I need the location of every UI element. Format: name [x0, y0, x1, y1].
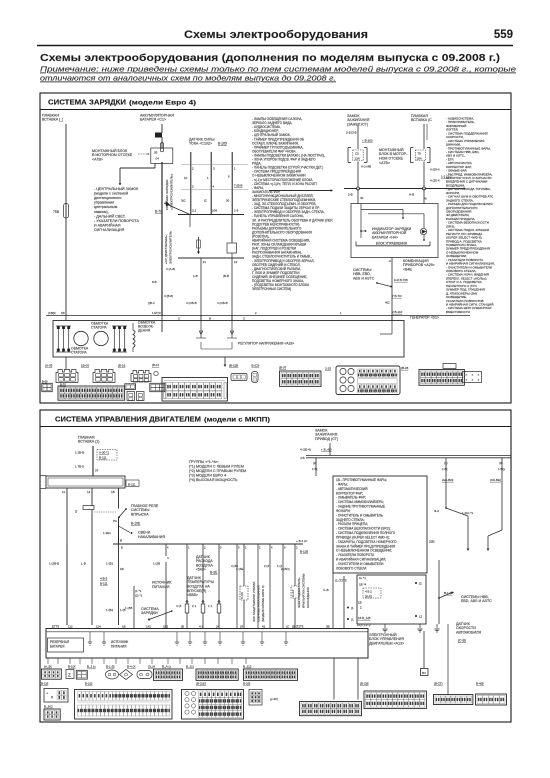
svg-text:(2) *1: (2) *1: [135, 594, 143, 598]
svg-text:1В: 1В: [111, 490, 115, 494]
wire fusible link vertical: [65, 124, 67, 316]
svg-text:ЕТТ5: ЕТТ5: [52, 624, 59, 628]
svg-text:ЭЛЕКТРОННЫХ СИСТЕМ): ЭЛЕКТРОННЫХ СИСТЕМ): [252, 287, 291, 291]
svg-text:1В: 1В: [120, 567, 124, 571]
svg-text:04: 04: [156, 156, 160, 160]
svg-text:В-105: В-105: [218, 141, 227, 145]
svg-text:×: ×: [466, 373, 468, 377]
svg-text:2-В: 2-В: [348, 193, 353, 197]
generator ground: [224, 357, 226, 364]
svg-text:замком),: замком),: [94, 210, 109, 214]
header rule: [37, 45, 513, 47]
svg-text:12: 12: [234, 260, 238, 264]
svg-text:В-111: В-111: [100, 582, 108, 586]
svg-text:ВСТАВКА (С: ВСТАВКА (С: [411, 118, 432, 122]
svg-text:- ГАБАРИТЫ, ПОДСВЕТКА НОМЕРНОГ: - ГАБАРИТЫ, ПОДСВЕТКА НОМЕРНОГО: [336, 540, 397, 544]
svg-text:(В-1)5: (В-1)5: [40, 682, 49, 686]
svg-text:«ЭЛЕКТРОУСИЛИТЕЛЬ»: «ЭЛЕКТРОУСИЛИТЕЛЬ»: [170, 173, 174, 210]
svg-text:8-В: 8-В: [152, 280, 157, 284]
component C-C9 dashed: [243, 544, 245, 586]
svg-text:(2: (2: [419, 582, 422, 586]
svg-text:16 В_1(В: 16 В_1(В: [358, 616, 371, 620]
svg-text:(,-В: (,-В: [81, 562, 86, 566]
svg-text:(СВ(Я: (СВ(Я: [48, 311, 56, 315]
svg-text:(В-2Т): (В-2Т): [434, 682, 443, 686]
current sensor wires: [190, 152, 192, 215]
svg-text:(1 (Т2Т5: (1 (Т2Т5: [335, 579, 347, 583]
svg-text:(З_М: (З_М: [148, 665, 155, 669]
wire battery to fuse box: [161, 137, 163, 149]
svg-text:ДВИГАТЕЛЕМ <А13>: ДВИГАТЕЛЕМ <А13>: [369, 642, 404, 646]
svg-text:(у-30(: (у-30(: [270, 697, 278, 701]
svg-text:×: ×: [472, 373, 474, 377]
ECU main box: [46, 629, 368, 659]
svg-text:1 1: 1 1: [208, 604, 213, 608]
fuse element on battery wire: [161, 143, 164, 152]
svg-text:(В-2)15: (В-2)15: [196, 682, 206, 686]
ECU internal components: [89, 632, 91, 642]
ground icon diamond: [120, 670, 133, 680]
links A-30 B-111: [97, 450, 117, 461]
small grid right of B70: [150, 383, 165, 391]
svg-text:В-2Е: В-2Е: [210, 571, 218, 575]
svg-text:БАТАРЕЯ: БАТАРЕЯ: [50, 644, 65, 648]
ground grid mid: [196, 669, 238, 680]
wire left of ECU pin box: [343, 576, 345, 628]
svg-text:7 (В-В: 7 (В-В: [234, 184, 243, 188]
svg-text:4 В: 4 В: [300, 456, 305, 460]
svg-text:1В *4: 1В *4: [359, 582, 367, 586]
svg-text:(В-11: (В-11: [152, 363, 159, 367]
stator winding coils: [74, 331, 88, 345]
small grid pair mid: [125, 384, 136, 390]
connector bus B-70 upper line: [178, 214, 244, 216]
svg-text:В-111: В-111: [99, 456, 107, 460]
svg-text:- ОМЫВАТЕЛЬ ФАР;: - ОМЫВАТЕЛЬ ФАР;: [336, 496, 366, 500]
relay coil component K1: [227, 243, 237, 253]
svg-text:1 (В1: 1 (В1: [106, 608, 114, 612]
svg-text:1 2Е1: 1 2Е1: [103, 531, 111, 535]
svg-text:АВТОМОБИЛЯ: АВТОМОБИЛЯ: [456, 631, 481, 635]
svg-text:В-10Е: В-10Е: [131, 522, 141, 526]
svg-text:В-1(Х: В-1(Х: [68, 665, 76, 669]
svg-text:ВСТАВКА [_]: ВСТАВКА [_]: [42, 118, 63, 122]
svg-text:4 (З: 4 (З: [176, 604, 182, 608]
svg-text:1В - ПРОТИВОТУМАННЫЕ ФАРЫ;: 1В - ПРОТИВОТУМАННЫЕ ФАРЫ;: [336, 478, 387, 482]
svg-text:11: 11: [62, 490, 65, 494]
ladder top bus: [113, 543, 303, 545]
svg-text:×: ×: [472, 378, 474, 382]
svg-text:ЗАРЯДКИ: ЗАРЯДКИ: [141, 611, 158, 615]
svg-text:АВS И АSТС: АВS И АSТС: [353, 277, 375, 281]
svg-text:1 ЕТ(Я: 1 ЕТ(Я: [152, 311, 161, 315]
wire to vehicle speed sensor area: [438, 560, 440, 624]
bus box ref B-111: [126, 480, 139, 487]
right pin box of ECU: [357, 575, 426, 624]
battery C1 symbol: [155, 133, 162, 138]
ladder middle wires: [133, 586, 135, 629]
svg-text:(В (Т2Т5: (В (Т2Т5: [292, 624, 304, 628]
svg-text:- ОЧИСТИТЕЛЬ И ОМЫВАТЕЛЬ: - ОЧИСТИТЕЛЬ И ОМЫВАТЕЛЬ: [336, 513, 383, 517]
svg-text:В4: В4: [422, 671, 426, 675]
svg-text:И АВАРИЙНАЯ: И АВАРИЙНАЯ: [94, 223, 121, 227]
svg-text:ЭЛЕКТРОДВИГАТЕЛЬ-: ЭЛЕКТРОДВИГАТЕЛЬ-: [297, 577, 301, 608]
fuse box 05 04 in relay box: [151, 148, 173, 164]
generator top pin rail: [46, 315, 470, 317]
svg-text:(А_В(: (А_В(: [44, 665, 52, 669]
svg-text:14: 14: [87, 490, 91, 494]
svg-text:4(С: 4(С: [385, 301, 391, 305]
ground icon oval wide: [137, 671, 152, 679]
bottom big grid A: [75, 690, 173, 720]
svg-text:- ЦЕНТРАЛЬНЫЙ ЗАМОК: - ЦЕНТРАЛЬНЫЙ ЗАМОК: [94, 187, 139, 191]
connector B-11 small circle: [154, 371, 158, 375]
rectifier diode block left: [57, 326, 59, 352]
svg-text:1-В: 1-В: [193, 274, 198, 278]
svg-text:9-И В-708: 9-И В-708: [394, 278, 408, 282]
svg-text:10: 10: [184, 176, 188, 180]
regulator internal wires: [200, 321, 202, 339]
svg-text:108: 108: [212, 209, 217, 213]
svg-text:24: 24: [216, 624, 220, 628]
svg-text:В: В: [120, 539, 122, 543]
svg-text:(С: (С: [286, 624, 289, 628]
svg-text:Ф-2: Ф-2: [434, 509, 439, 513]
svg-text:(С9-ВЕ(: (С9-ВЕ(: [490, 478, 501, 482]
section 1 title bar separator: [40, 109, 511, 111]
ground icon small grid: [76, 670, 87, 679]
svg-text:(1 *1: (1 *1: [135, 589, 142, 593]
wire control unit to generator L terminal: [391, 258, 393, 321]
section 2 frame: [40, 410, 511, 722]
small aux boxes: [127, 392, 135, 401]
svg-text:(*1) МОДЕЛИ С ЛЕВЫМ РУЛЕМ: (*1) МОДЕЛИ С ЛЕВЫМ РУЛЕМ: [189, 465, 244, 469]
svg-text:(С-В): (С-В): [458, 639, 466, 643]
injection main relay coil: [83, 506, 94, 510]
generator pins on box top: [65, 316, 67, 321]
svg-text:13А: 13А: [355, 157, 360, 161]
ground icon 1 mini grid: [42, 669, 62, 679]
svg-text:×: ×: [478, 378, 480, 382]
branch wire to central lock loads: [154, 164, 156, 169]
svg-text:<5А3>: <5А3>: [196, 568, 206, 572]
svg-text:((В-4: ((В-4: [148, 301, 155, 305]
svg-text:В-2(З: В-2(З: [85, 682, 93, 686]
svg-text:<ВВ5>: <ВВ5>: [187, 593, 198, 597]
svg-text:(В-07: (В-07: [279, 366, 287, 370]
svg-text:40: 40: [360, 196, 364, 200]
svg-text:И АВАРИЙНАЯ СИГНАЛИЗАЦИЯ;: И АВАРИЙНАЯ СИГНАЛИЗАЦИЯ;: [336, 558, 386, 562]
svg-text:- СИСТЕМА ПОДКЛЮЧЕНИЯ ПОЛНОГО: - СИСТЕМА ПОДКЛЮЧЕНИЯ ПОЛНОГО: [336, 531, 396, 535]
ignition fuse box C2: [347, 148, 349, 163]
svg-text:В-1 (В: В-1 (В: [106, 665, 115, 669]
svg-text:ВМЕСТИМОСТИ: ВМЕСТИМОСТИ: [446, 310, 470, 314]
svg-text:(модели Евро 4): (модели Евро 4): [129, 101, 196, 107]
svg-text:НАКАЛИВАНИЯ: НАКАЛИВАНИЯ: [138, 535, 165, 539]
svg-text:559: 559: [494, 29, 513, 41]
svg-text:(В-28: (В-28: [401, 366, 409, 370]
svg-text:В: В: [209, 316, 211, 320]
svg-text:В-2(5: В-2(5: [243, 682, 251, 686]
svg-text:15А: 15А: [417, 157, 422, 161]
svg-text:1А) (Т2Т2: 1А) (Т2Т2: [357, 623, 371, 627]
svg-text:ИСТОЧНИК: ИСТОЧНИК: [111, 640, 128, 644]
svg-text:Н-В: Н-В: [409, 193, 414, 197]
bottom big grid B: [182, 690, 244, 720]
fusible link bus box: [40, 475, 46, 477]
svg-text:БАТАРЕЯ <С1>: БАТАРЕЯ <С1>: [140, 118, 166, 122]
section 1 frame: [40, 93, 511, 403]
wire bus B-70 down-left: [200, 258, 202, 321]
svg-text:- УКАЗАТЕЛИ ПОВОРОТА: - УКАЗАТЕЛИ ПОВОРОТА: [94, 219, 139, 223]
ground grid right: [244, 669, 298, 680]
connector B-11B molded small: [231, 374, 247, 381]
svg-text:ЛОБОВОГО СТЕКЛА: ЛОБОВОГО СТЕКЛА: [336, 566, 367, 570]
connector bus B-70 lower line: [178, 257, 244, 259]
injection relay contact: [119, 509, 127, 518]
svg-text:Примечание: ниже приведены схе: Примечание: ниже приведены схемы только …: [40, 65, 516, 74]
svg-text:#: #: [51, 696, 53, 700]
svg-text:×: ×: [466, 378, 468, 382]
svg-text:управления: управления: [94, 201, 114, 205]
svg-text:(1: (1: [351, 606, 354, 610]
main trunk wire: [161, 162, 163, 316]
svg-text:+ В-103: + В-103: [362, 139, 373, 143]
svg-text:1 7В-5: 1 7В-5: [75, 465, 84, 469]
svg-text:<В4Е: <В4Е: [403, 268, 412, 272]
connector 2-25 large: [336, 366, 400, 395]
svg-text:(1: (1: [351, 618, 354, 622]
svg-text:центральным: центральным: [94, 205, 118, 209]
fuse F1 75A symbol: [64, 204, 69, 219]
wire sensor col short stub: [189, 215, 191, 228]
svg-text:В_А («: В_А («: [162, 665, 172, 669]
svg-text:(модели с системой: (модели с системой: [94, 192, 128, 196]
svg-text:- УКАЗАТЕЛИ ПОВОРОТА: - УКАЗАТЕЛИ ПОВОРОТА: [336, 553, 375, 557]
svg-text:4 (В-8(: 4 (В-8(: [164, 294, 173, 298]
svg-text:(модели с МКПП): (модели с МКПП): [204, 418, 270, 424]
ground grid small1: [154, 669, 183, 680]
svg-text:В: В: [121, 546, 123, 550]
svg-text:ВПРЫСКА: ВПРЫСКА: [131, 513, 149, 517]
wire relay to ladder: [91, 510, 93, 626]
current sensor connector lines: [181, 164, 248, 166]
connector A-05 molded: [56, 370, 78, 383]
svg-text:14: 14: [203, 260, 207, 264]
connector B-05 molded: [93, 370, 115, 383]
svg-text:А-30 *1: А-30 *1: [99, 451, 109, 455]
component C-C7 dashed: [294, 544, 296, 586]
svg-text:(А-С(: (А-С(: [365, 594, 372, 598]
svg-text:41: 41: [262, 624, 266, 628]
svg-text:ПИТАНИЯ: ПИТАНИЯ: [152, 585, 170, 589]
svg-text:ГРУППЫ «*1-*4»:: ГРУППЫ «*1-*4»:: [189, 460, 219, 464]
svg-text:2 В-110: 2 В-110: [392, 310, 403, 314]
charge bus horizontal: [344, 188, 464, 190]
svg-text:Схемы электрооборудования: Схемы электрооборудования: [184, 29, 368, 41]
svg-text:СИСТЕМА ЗАРЯДКИ: СИСТЕМА ЗАРЯДКИ: [48, 98, 126, 107]
bottom small grid below plus box: [44, 709, 60, 720]
svg-text:2 (ЗО(: 2 (ЗО(: [281, 567, 290, 571]
ECU bottom pin stubs: [47, 658, 49, 664]
svg-text:ТОКА <С102>: ТОКА <С102>: [189, 142, 212, 146]
combination meter A29 box: [351, 204, 438, 258]
svg-text:4 В 2: 4 В 2: [365, 589, 372, 593]
svg-text:(В: (В: [181, 624, 184, 628]
svg-text:ПИТАНИЯ: ПИТАНИЯ: [111, 644, 127, 648]
svg-text:3,1: 3,1: [192, 209, 197, 213]
svg-text:О НЕВЫКЛЮЧЕННОМ ОСВЕЩЕНИИ;: О НЕВЫКЛЮЧЕННОМ ОСВЕЩЕНИИ;: [336, 549, 392, 553]
svg-text:4--В: 4--В: [323, 588, 329, 592]
svg-text:- ОЧИСТИТЕЛИ И ОМЫВАТЕЛИ: - ОЧИСТИТЕЛИ И ОМЫВАТЕЛИ: [336, 562, 383, 566]
svg-text:1 В(: 1 В(: [442, 467, 448, 471]
svg-text:В-4 (Х: В-4 (Х: [127, 665, 136, 669]
ground icon Z box: [66, 670, 74, 679]
svg-text:(В-16: (В-16: [118, 364, 126, 368]
svg-text:05: 05: [154, 150, 158, 154]
wires bus to control unit: [357, 189, 359, 205]
wire to B4 ground: [423, 631, 425, 668]
svg-text:×: ×: [478, 373, 480, 377]
svg-text:ГЕНЕРАТОР <D1>: ГЕНЕРАТОР <D1>: [410, 316, 439, 320]
svg-text:А-3 (4В: А-3 (4В: [361, 165, 371, 169]
small grid pair left: [42, 383, 52, 391]
svg-text:В-(С9: В-(С9: [252, 364, 260, 368]
resistor inside sensor branch: [198, 237, 200, 254]
junction trunk to sensor bus: [166, 201, 171, 207]
svg-text:В-11В: В-11В: [300, 550, 308, 554]
svg-text:4-В-5: 4-В-5: [100, 577, 108, 581]
svg-text:L2: L2: [419, 615, 423, 619]
connector B-16 molded: [131, 371, 151, 382]
pointer arrow from list to right: [269, 190, 332, 192]
right fusible link wire: [423, 124, 425, 149]
svg-text:(В-В: (В-В: [223, 274, 229, 278]
svg-text:4 (25-4: 4 (25-4: [430, 179, 440, 183]
svg-text:1 (2: 1 (2: [277, 564, 282, 568]
svg-text:дистанционного: дистанционного: [94, 196, 121, 200]
svg-text:СВЕЧАМИ НАКАЛИВАНИЯ: СВЕЧАМИ НАКАЛИВАНИЯ: [257, 585, 261, 622]
svg-text:2нЗ-В22: 2нЗ-В22: [442, 478, 454, 482]
svg-text:4): 4): [424, 197, 427, 201]
svg-text:1В-05: 1В-05: [81, 364, 89, 368]
svg-text:(В-11В: (В-11В: [229, 364, 238, 368]
svg-text:(*4) ВЫСОКАЯ МОЩНОСТЬ: (*4) ВЫСОКАЯ МОЩНОСТЬ: [189, 478, 238, 482]
svg-text:112: 112: [68, 624, 73, 628]
svg-text:(2: (2: [204, 199, 207, 203]
svg-text:В-111: В-111: [128, 482, 136, 486]
svg-text:(МОДЕЛИ КРОМЕ ЕВРО 4): (МОДЕЛИ КРОМЕ ЕВРО 4): [261, 585, 265, 622]
svg-text:<А7В>: <А7В>: [92, 157, 103, 161]
svg-text:отличаются от аналогичных схем: отличаются от аналогичных схем по моделя…: [40, 74, 336, 83]
svg-text:(А-05: (А-05: [45, 364, 53, 368]
right branch to arrow terminals: [445, 507, 447, 509]
svg-text:3В: 3В: [326, 624, 330, 628]
svg-text:141: 141: [146, 624, 151, 628]
svg-text:ПРИВОД (СТ): ПРИВОД (СТ): [315, 437, 338, 441]
svg-text:(*2) МОДЕЛИ С ПРАВЫМ РУЛЕМ: (*2) МОДЕЛИ С ПРАВЫМ РУЛЕМ: [189, 469, 246, 473]
bottom connector plus box: [44, 689, 68, 703]
backup battery box: [48, 638, 84, 652]
wire sensor to coil component: [231, 215, 233, 243]
svg-text:4 (А-8(: 4 (А-8(: [166, 267, 175, 271]
svg-text:С2: С2: [355, 151, 359, 155]
svg-text:1 (В1: 1 (В1: [106, 562, 114, 566]
wire contact to bus: [118, 517, 120, 544]
svg-text:В-70: В-70: [155, 210, 162, 214]
svg-text:ПРИВОДА (SUPER SELECT 4WD-II);: ПРИВОДА (SUPER SELECT 4WD-II);: [336, 536, 390, 540]
svg-text:1В: 1В: [61, 311, 65, 315]
svg-text:С-С9: С-С9: [240, 592, 244, 599]
svg-text:КОРРЕКТОР ФАР;: КОРРЕКТОР ФАР;: [336, 491, 363, 495]
svg-text:(В-2)В: (В-2)В: [360, 682, 369, 686]
svg-text:ЕВD, АВS И АSТС: ЕВD, АВS И АSТС: [461, 599, 492, 603]
ignition bus double line: [306, 455, 511, 457]
svg-text:2 1: 2 1: [192, 604, 197, 608]
svg-text:ЭЛЕКТРОУСИЛИТЕЛЬ: ЭЛЕКТРОУСИЛИТЕЛЬ: [169, 231, 173, 264]
svg-text:4 (СВ-В: 4 (СВ-В: [217, 301, 228, 305]
ignition wire: [357, 125, 359, 149]
svg-text:Z: Z: [68, 673, 71, 678]
wire generator B terminal down: [65, 357, 67, 369]
wire x333: [332, 544, 334, 628]
right fuse box 75 15A: [410, 148, 412, 163]
svg-text:1В2: 1В2: [163, 624, 169, 628]
ladder wire 1 left: [66, 544, 68, 625]
svg-text:- АВТОМАТИЧЕСКИЙ: - АВТОМАТИЧЕСКИЙ: [336, 487, 368, 491]
bottom grid D: [364, 691, 426, 709]
svg-text:Схемы электрооборудования (доп: Схемы электрооборудования (дополнения по…: [40, 52, 500, 64]
svg-text:7 В-70/: 7 В-70/: [392, 294, 402, 298]
svg-text:4 (СВ-В: 4 (СВ-В: [186, 301, 197, 305]
svg-text:4 (ЗЕ: 4 (ЗЕ: [231, 564, 238, 568]
svg-text:ВСТАВКА (1): ВСТАВКА (1): [78, 440, 100, 444]
svg-text:КРЫЛЬЧАТКА СИСТЕМЫ: КРЫЛЬЧАТКА СИСТЕМЫ: [302, 573, 306, 608]
svg-text:БАТАРЕИ <Н4>: БАТАРЕИ <Н4>: [372, 236, 398, 240]
svg-text:РЕГУЛЯТОР НАПРЯЖЕНИЯ <А19>: РЕГУЛЯТОР НАПРЯЖЕНИЯ <А19>: [238, 342, 294, 346]
sensor wires with resistors: [186, 544, 188, 604]
svg-text:(Л: (Л: [240, 624, 243, 628]
svg-text:4 (05-4: 4 (05-4: [430, 168, 440, 172]
svg-text:СТАТОРА: СТАТОРА: [71, 351, 87, 355]
svg-text:30: 30: [226, 199, 230, 203]
svg-text:1L *1: 1L *1: [359, 576, 366, 580]
control unit U bracket: [356, 245, 430, 247]
svg-text:«СУ ДВИГАТЕЛЕМ»,: «СУ ДВИГАТЕЛЕМ»,: [164, 234, 168, 264]
svg-text:114: 114: [96, 624, 101, 628]
ground icon ellipse: [106, 670, 119, 679]
svg-text:- РАЗЪЕМ ПРИЦЕПА;: - РАЗЪЕМ ПРИЦЕПА;: [336, 522, 368, 526]
svg-text:ЗНАКА И ТАЙМЕР ПРЕДУПРЕЖДЕНИЯ: ЗНАКА И ТАЙМЕР ПРЕДУПРЕЖДЕНИЯ: [336, 544, 396, 548]
bottom grid C: [300, 702, 362, 716]
svg-text:В-4(В: В-4(В: [476, 682, 484, 686]
svg-text:ЭЛС ЗАЩИТЫ/БЛОК УПРАВЛ.: ЭЛС ЗАЩИТЫ/БЛОК УПРАВЛ.: [252, 581, 256, 622]
grounds under right box: [384, 624, 386, 628]
svg-text:В_11(: В_11(: [186, 665, 194, 669]
svg-text:75: 75: [418, 151, 422, 155]
svg-text:- СИСТЕМА БЕЗОПАСНОСТИ (SRS);: - СИСТЕМА БЕЗОПАСНОСТИ (SRS);: [336, 527, 391, 531]
svg-text:В_302: В_302: [44, 705, 53, 709]
loads list box section 2: [333, 476, 427, 573]
svg-text:В_112: В_112: [243, 665, 252, 669]
svg-text:1-9: 1-9: [234, 209, 239, 213]
svg-text:3-103-В: 3-103-В: [346, 131, 357, 135]
svg-text:- ЗОНА УПОРОВ ПОДСВ. ФАР И ЗАД: - ЗОНА УПОРОВ ПОДСВ. ФАР И ЗАДНЕГО: [252, 158, 316, 162]
svg-text:С+С7: С+С7: [291, 589, 295, 597]
svg-text:СИГНАЛИЗАЦИЯ: СИГНАЛИЗАЦИЯ: [94, 228, 125, 232]
svg-text:ОХЛАЖДЕНИЯ: ОХЛАЖДЕНИЯ: [306, 587, 310, 608]
svg-text:В_3 («: В_3 («: [87, 665, 96, 669]
